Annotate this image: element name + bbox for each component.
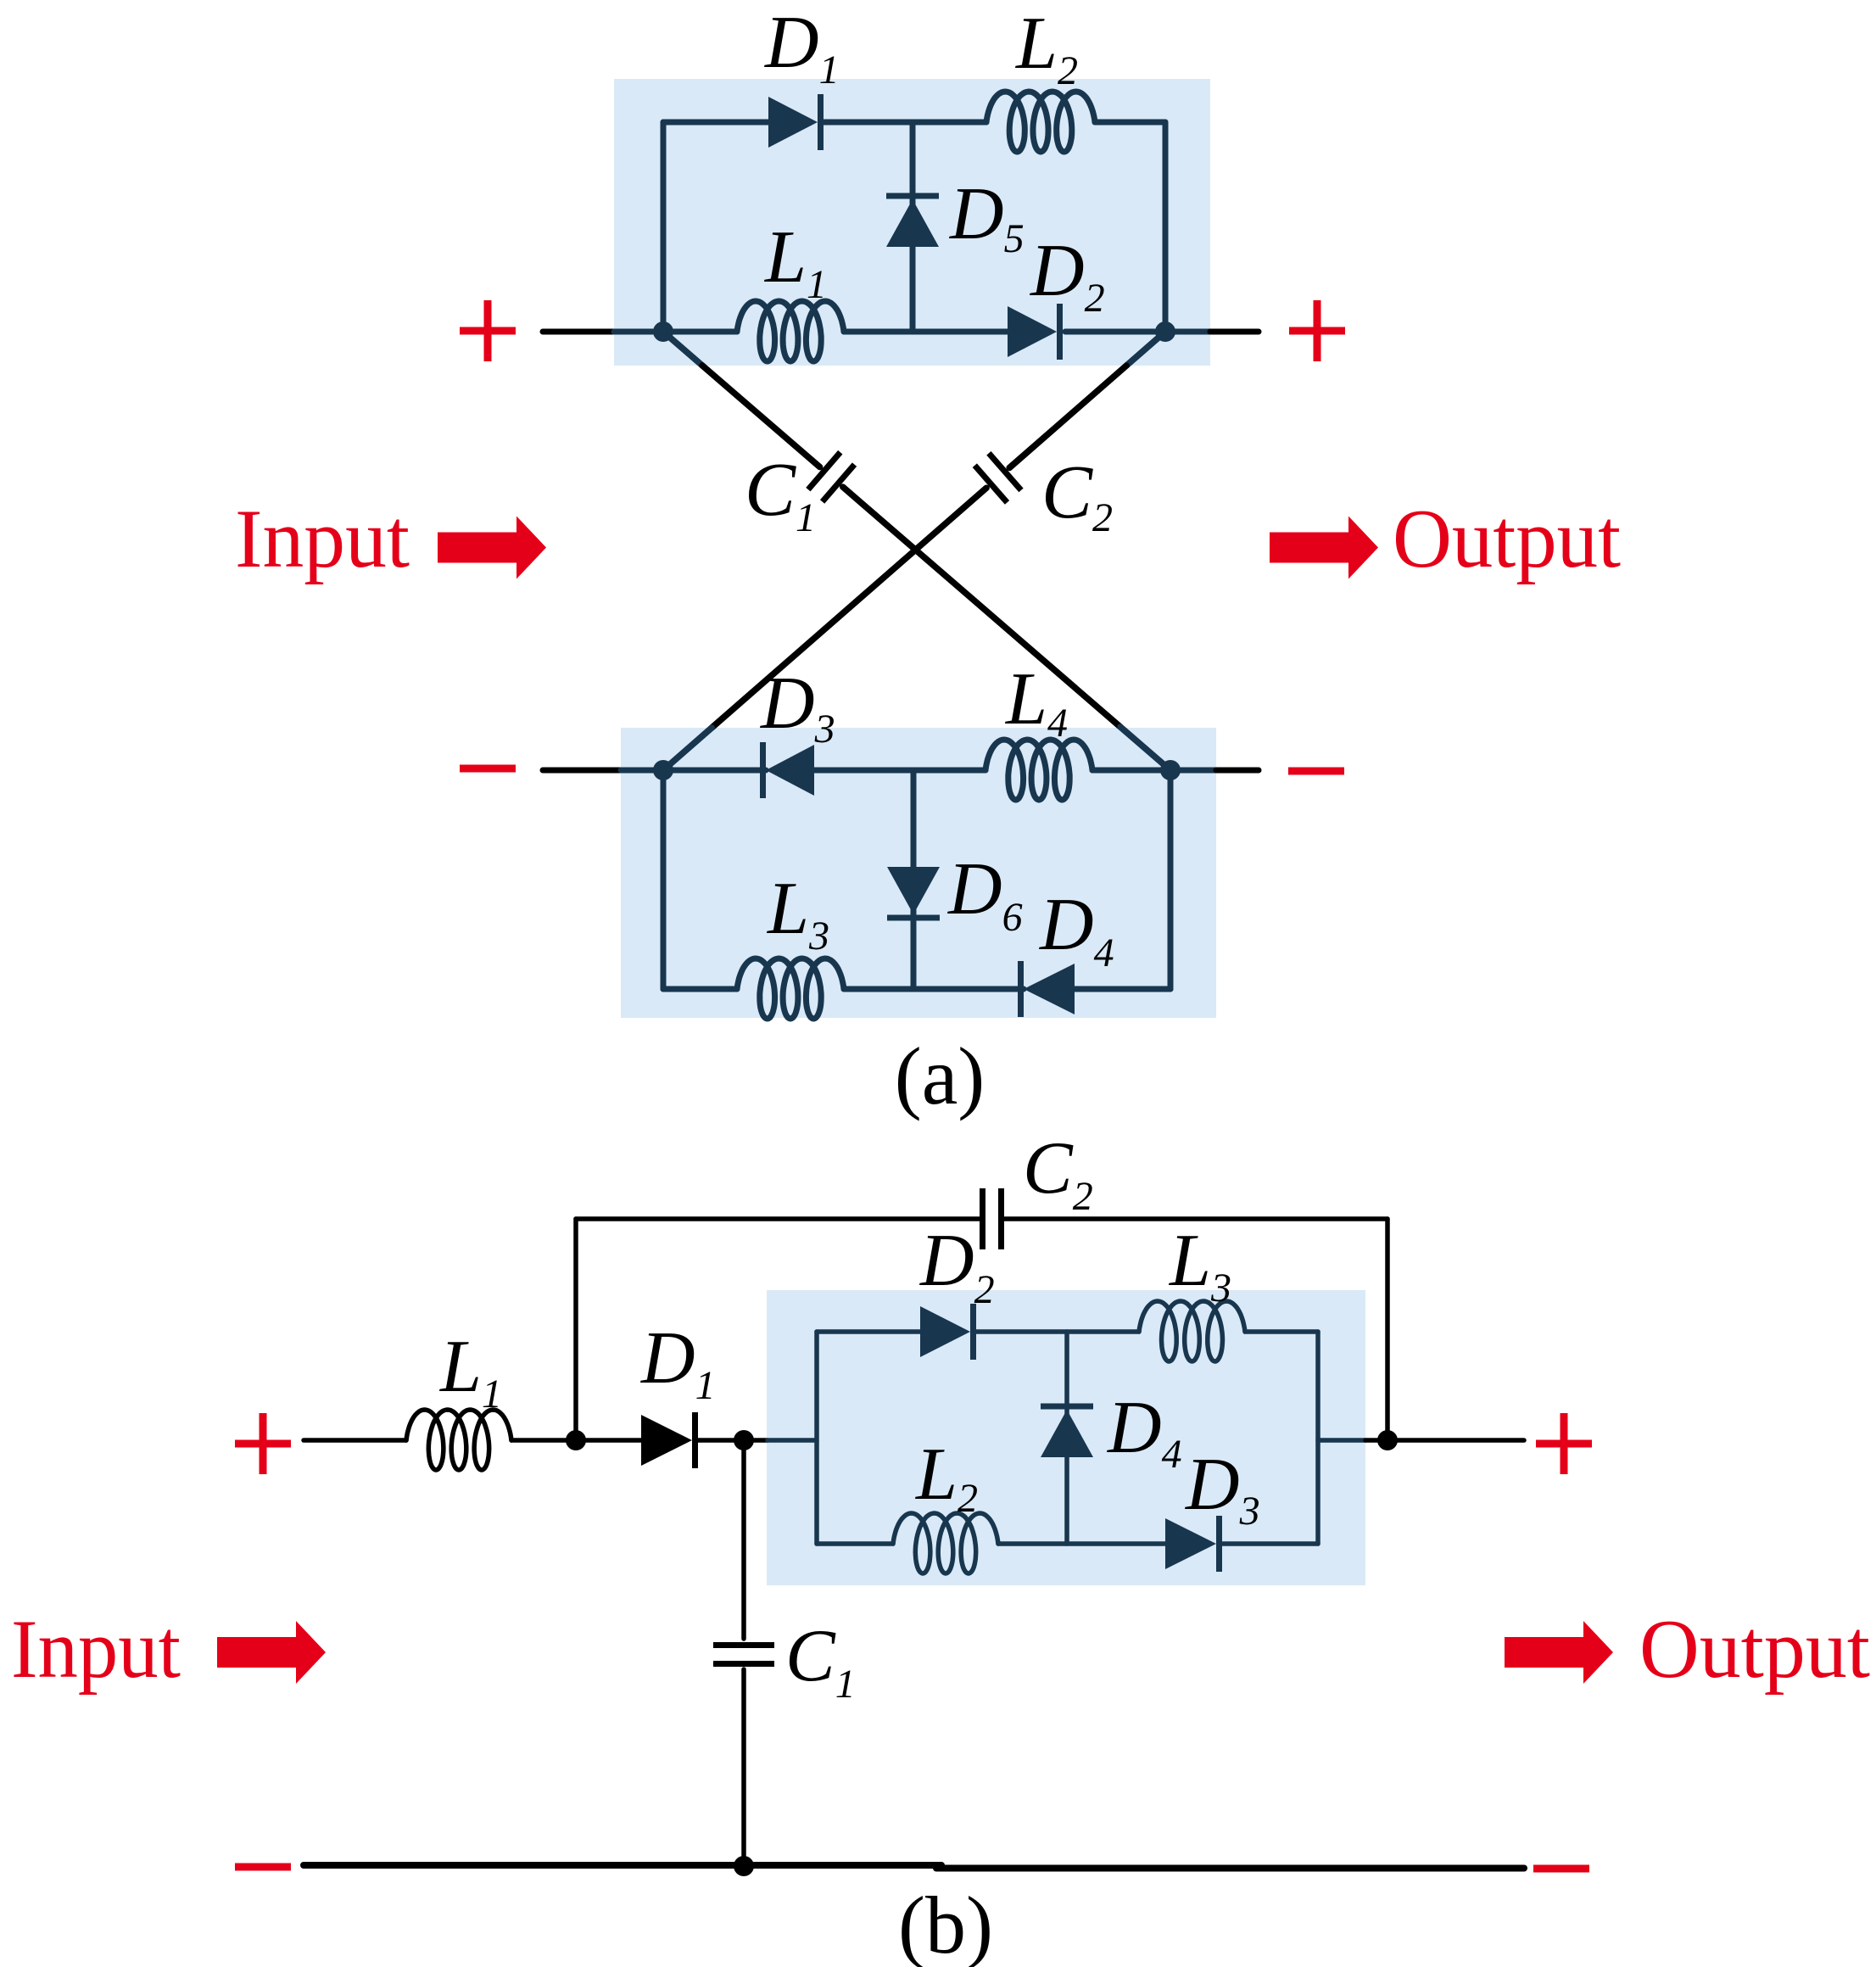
svg-text:(b): (b): [898, 1880, 993, 1967]
diode D2 (a) label: [1030, 230, 1105, 321]
diode D2 (b) label: [919, 1220, 995, 1312]
plus sign output (b): [1536, 1413, 1592, 1474]
output wire (b): [1365, 1438, 1524, 1443]
wire diagonal C2 upper segment: [1009, 366, 1126, 467]
wire D3 to right vertical: [1222, 1541, 1318, 1546]
wire top rail to D2: [817, 1329, 920, 1334]
inductor L1 (b) label: [438, 1326, 502, 1417]
Output text (b): [1639, 1603, 1870, 1696]
inductor L3 (a): [737, 958, 844, 1019]
caption (a): [895, 1031, 985, 1121]
wire D3 to L4: [814, 768, 985, 774]
inductor L2 (b) label: [914, 1433, 978, 1521]
wire left vertical (a bottom block): [661, 770, 667, 989]
wire middle vertical (b cell): [1064, 1332, 1069, 1544]
capacitor C2 (a) label: [1041, 450, 1113, 540]
wire diagonal C2 lower segment: [712, 488, 986, 728]
inductor L3 (a) label: [766, 868, 829, 958]
wire L2 to D3: [998, 1541, 1165, 1546]
wire bottom rail to L2: [817, 1541, 893, 1546]
wire right vertical (a top block): [1163, 122, 1169, 332]
diode D1 (b): [641, 1412, 695, 1468]
inductor L1 (a) label: [763, 216, 827, 307]
capacitor C2 (b) plates: [983, 1188, 1002, 1249]
wire top rail left segment (a): [663, 120, 768, 126]
diode D2 (a): [1008, 304, 1060, 360]
wire box edge to node C: [621, 768, 663, 774]
node C junction dot: [653, 760, 673, 780]
wire right vertical (a bottom block): [1168, 770, 1174, 989]
bottom return wire (b) left segment: [304, 1862, 941, 1869]
caption (b): [898, 1880, 993, 1967]
wire node2 drop lower: [741, 1669, 746, 1865]
wire node A to L1: [663, 329, 737, 335]
wire L3 to right vertical: [1245, 1329, 1318, 1334]
capacitor C2 (a) plates: [974, 453, 1021, 502]
wire right vertical (b cell): [1315, 1332, 1320, 1544]
node4 junction dot: [734, 1856, 754, 1876]
wire diagonal C1 upper segment: [702, 366, 820, 467]
wire D1 to L2: [824, 120, 986, 126]
diode D1 (b) label: [640, 1317, 716, 1408]
wire node B to box edge: [1165, 329, 1210, 335]
wire diagonal into node D (navy in box): [1120, 727, 1170, 770]
Output text (a): [1393, 493, 1621, 585]
wire cell mid exit (b right): [1318, 1438, 1365, 1443]
wire diagonal into node C (navy in box): [663, 728, 712, 770]
Input arrow (a): [438, 517, 546, 579]
diode D4 (b): [1041, 1406, 1093, 1457]
minus sign output (a): [1288, 768, 1344, 775]
diode D5 (a) label: [949, 173, 1025, 261]
inductor L4 (a): [985, 740, 1092, 800]
wire diagonal from node B to C2 (navy in box): [1126, 332, 1165, 366]
inductor L2 (a): [986, 92, 1095, 152]
diode D3 (a) label: [760, 662, 835, 752]
wire C2 rail left segment: [576, 1216, 980, 1221]
capacitor C1 (a) plates: [808, 452, 855, 501]
input + wire (a): [543, 329, 614, 335]
wire node C to D3: [663, 768, 766, 774]
diode D3 (a): [763, 742, 815, 798]
wire L3 to D4: [844, 986, 1024, 992]
wire box entry (b left): [768, 1438, 817, 1443]
wire D2 to node B: [1065, 329, 1165, 335]
input - wire (a): [543, 768, 621, 774]
wire left vertical (a top block): [661, 122, 667, 332]
wire node1 riser to C2 rail: [573, 1219, 578, 1440]
wire L1 to D2: [844, 329, 1009, 335]
diode D3 (b): [1165, 1516, 1220, 1572]
bottom return wire (b) right segment: [936, 1865, 1524, 1872]
inductor L2 (b): [893, 1513, 998, 1573]
plus sign input (b): [235, 1413, 291, 1474]
minus sign input (b): [235, 1864, 291, 1871]
node3 junction dot: [1377, 1430, 1398, 1450]
capacitor C1 (b) label: [785, 1615, 856, 1707]
svg-text:Input: Input: [11, 1603, 181, 1696]
diode D4 (a) label: [1039, 884, 1114, 975]
wire C2 rail right segment: [1004, 1216, 1387, 1221]
output - wire (a): [1216, 768, 1259, 774]
svg-text:Output: Output: [1393, 493, 1621, 585]
Input arrow (b): [217, 1621, 326, 1684]
wire node2 drop upper: [741, 1440, 746, 1639]
wire middle vertical (a top block): [910, 122, 916, 332]
output + wire (a): [1210, 329, 1259, 335]
node D junction dot: [1160, 760, 1181, 780]
wire L4 to node D: [1092, 768, 1170, 774]
wire middle vertical (a bottom block): [911, 770, 917, 989]
inductor L3 (b): [1139, 1301, 1245, 1361]
wire D2 to L3: [976, 1329, 1139, 1334]
plus sign input (a): [460, 300, 516, 361]
node1 junction dot: [566, 1430, 586, 1450]
shaded cell box (b): [767, 1290, 1365, 1585]
Output arrow (b): [1505, 1621, 1613, 1684]
wire C2 rail drop to node3: [1385, 1219, 1390, 1440]
wire bottom rail left segment (a): [663, 986, 737, 992]
wire box edge to node A: [614, 329, 663, 335]
diode D1 (a) label: [764, 2, 840, 92]
plus sign output (a): [1289, 300, 1345, 361]
diode D4 (a): [1021, 961, 1075, 1017]
diode D2 (b): [920, 1304, 974, 1360]
wire diagonal C1 lower segment: [843, 487, 1120, 727]
inductor L1 (b): [406, 1410, 511, 1470]
Input text (a): [235, 493, 410, 585]
wire L1 to D1: [511, 1438, 641, 1443]
Output arrow (a): [1270, 517, 1378, 579]
node2 junction dot: [734, 1430, 754, 1450]
wire L2 to right vertical: [1095, 120, 1165, 126]
capacitor C2 (b) label: [1023, 1127, 1093, 1219]
wire D1 to box: [698, 1438, 768, 1443]
inductor L4 (a) label: [1004, 658, 1068, 746]
capacitor C1 (b) plates: [713, 1646, 774, 1664]
diode D1 (a): [768, 94, 821, 150]
diode D3 (b) label: [1185, 1444, 1260, 1534]
diode D5 (a): [886, 196, 939, 247]
diode D6 (a) label: [947, 848, 1023, 940]
inductor L1 (a): [737, 301, 844, 361]
node A junction dot: [653, 321, 673, 342]
svg-text:Output: Output: [1639, 1603, 1870, 1696]
diode D4 (b) label: [1107, 1387, 1182, 1477]
minus sign input (a): [460, 765, 516, 773]
input + wire (b): [304, 1438, 406, 1443]
node B junction dot: [1155, 321, 1175, 342]
wire D4 to right vertical: [1075, 986, 1170, 992]
inductor L3 (b) label: [1168, 1220, 1231, 1310]
inductor L2 (a) label: [1014, 3, 1078, 93]
svg-text:(a): (a): [895, 1031, 985, 1121]
diode D6 (a): [887, 867, 940, 918]
minus sign output (b): [1533, 1865, 1589, 1873]
wire left vertical (b cell): [814, 1332, 819, 1544]
wire node D to box edge: [1170, 768, 1216, 774]
svg-text:Input: Input: [235, 493, 410, 585]
wire diagonal from node A to C1 (navy in box): [663, 332, 702, 366]
shaded cell box (a) bottom: [621, 728, 1216, 1018]
Input text (b): [11, 1603, 181, 1696]
capacitor C1 (a) label: [745, 448, 816, 540]
shaded cell box (a) top: [614, 79, 1210, 366]
